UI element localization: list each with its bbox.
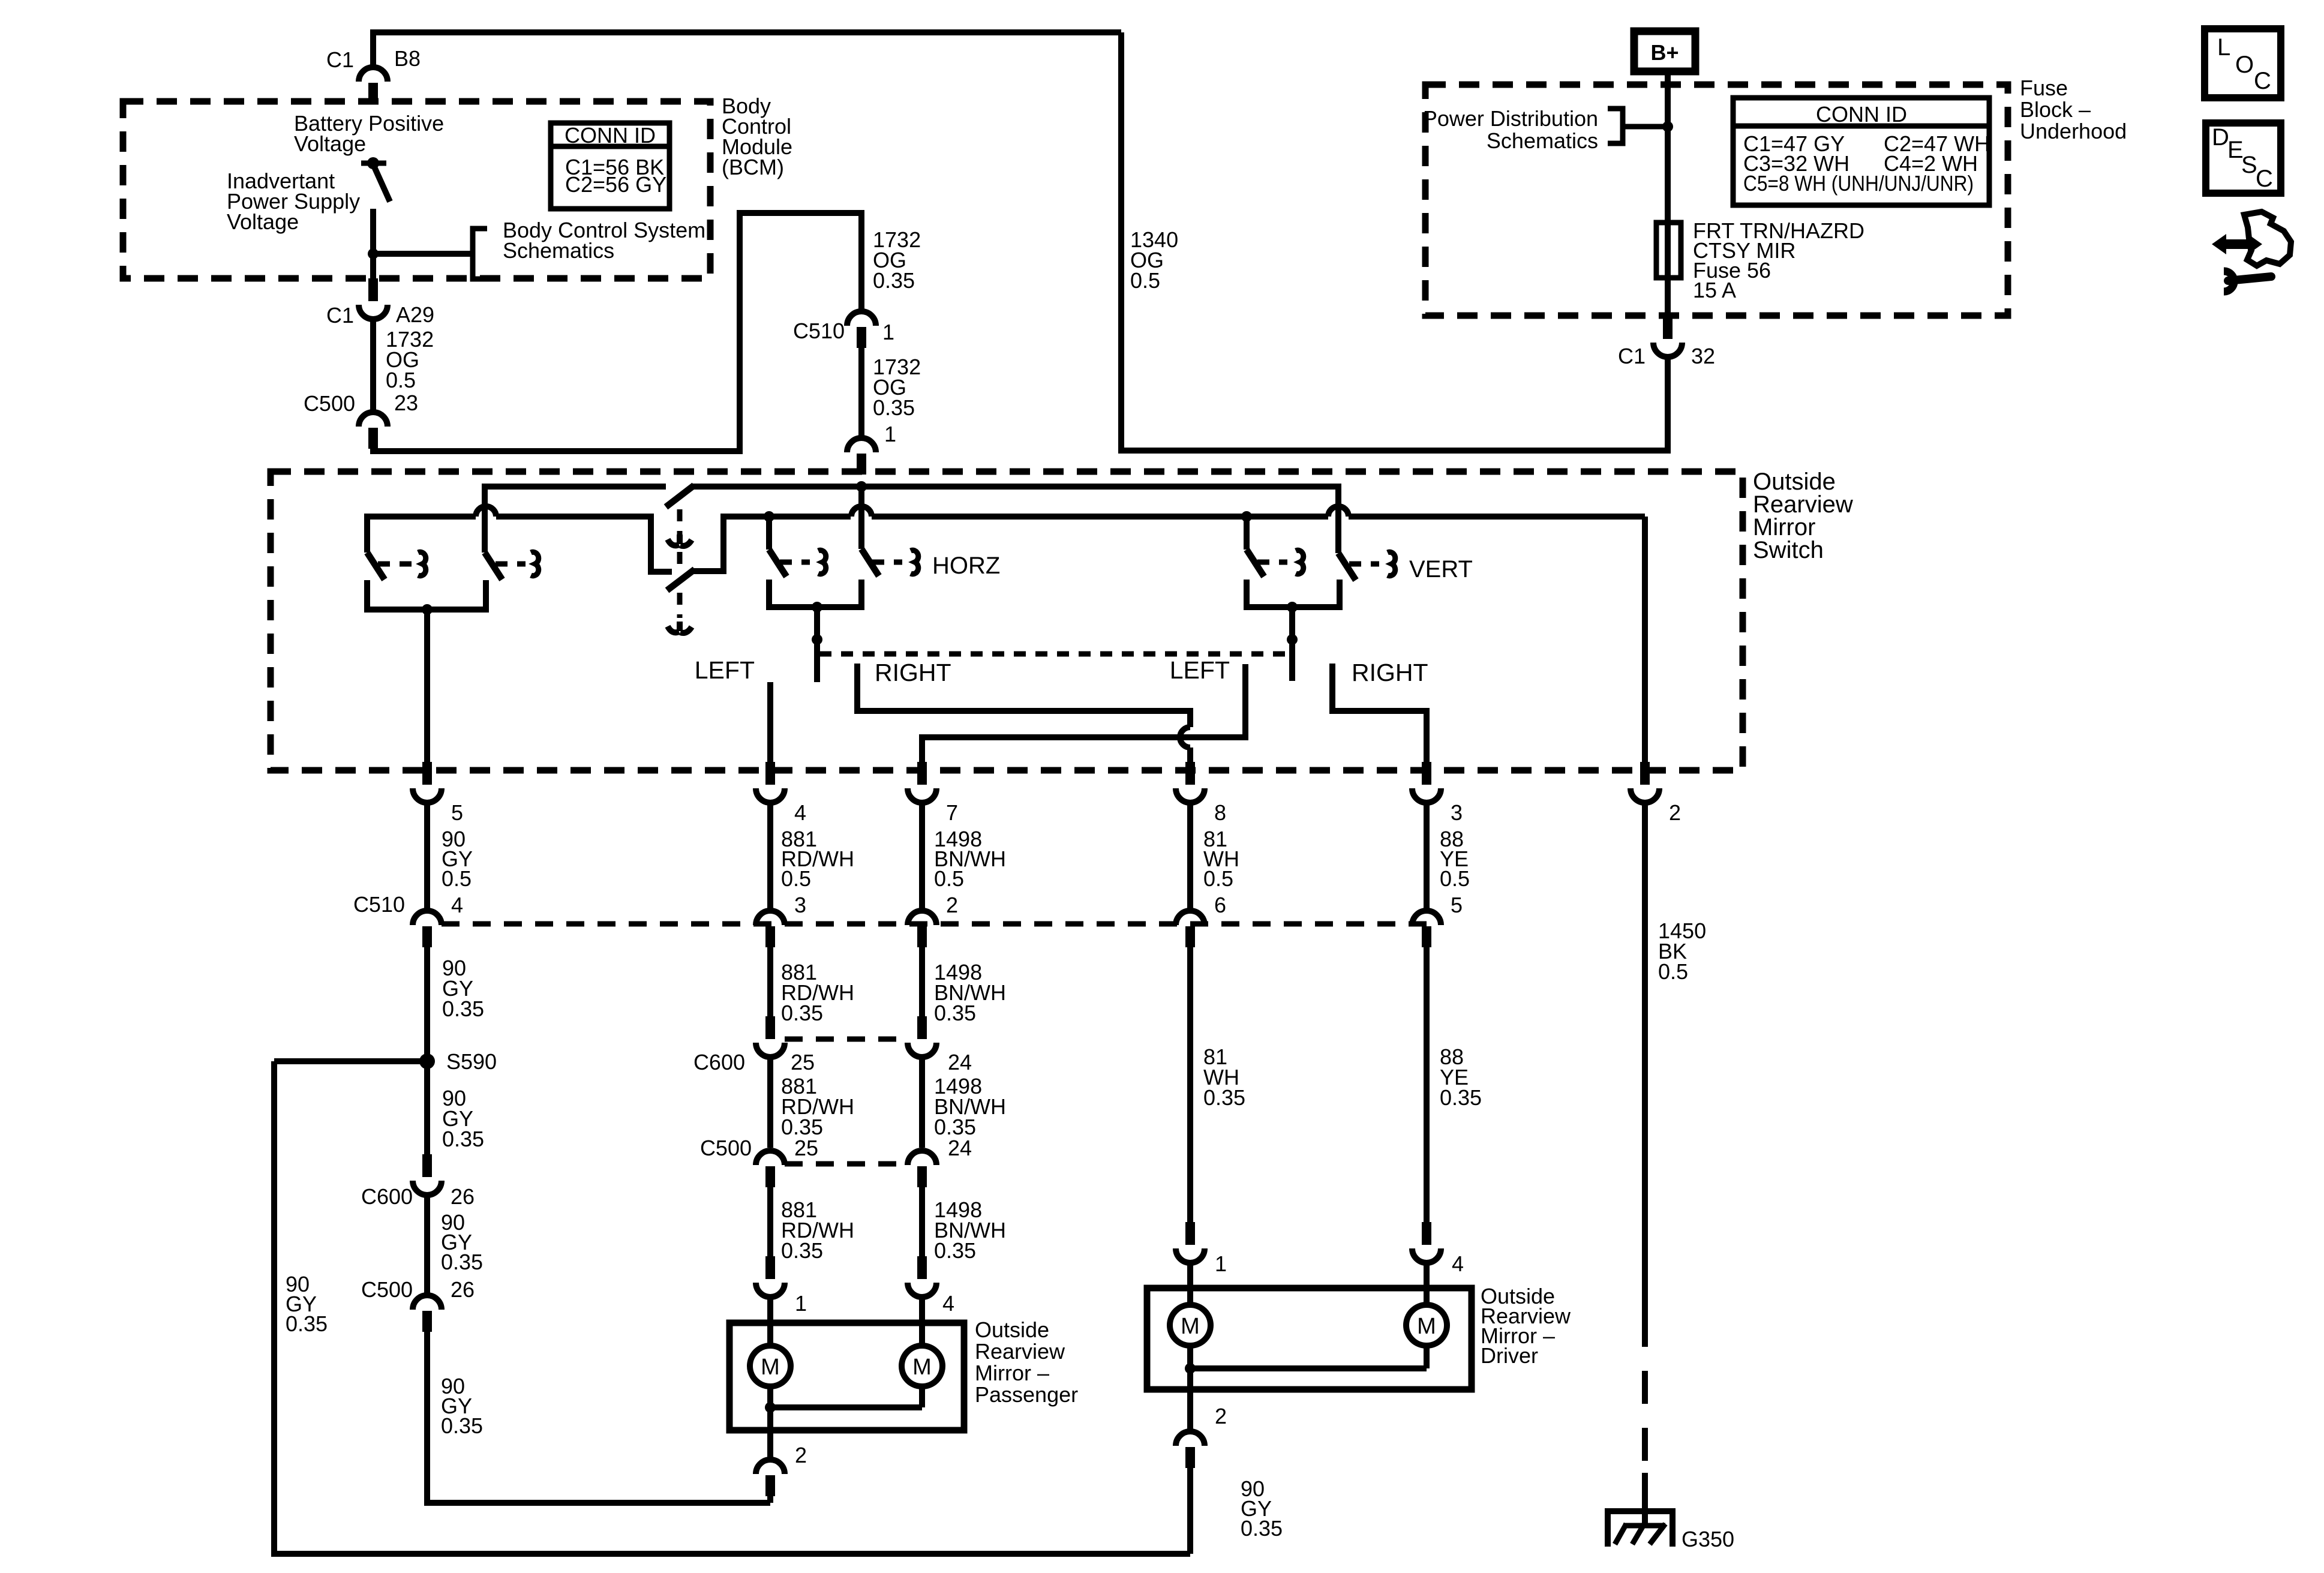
svg-text:HORZ: HORZ xyxy=(932,553,1000,579)
svg-text:25: 25 xyxy=(794,1136,818,1160)
wire: B+ down into fuse block xyxy=(1665,75,1671,225)
node: HORZ output lower junction xyxy=(812,634,822,645)
svg-text:26: 26 xyxy=(451,1184,475,1209)
svg-text:C500: C500 xyxy=(361,1277,413,1302)
connector C500 pin 25 xyxy=(756,1151,785,1165)
connector: mirror switch pin 2 xyxy=(1640,762,1650,785)
CONN ID table (fuse block) xyxy=(1733,98,1989,205)
linkage dashes (VERT right) xyxy=(1349,562,1379,567)
contact (pair A) xyxy=(418,552,426,576)
connector: mirror switch pin 4 xyxy=(765,762,775,785)
switch: HORZ-left stub xyxy=(766,517,772,550)
battery feed B+ terminal box xyxy=(1634,31,1695,71)
svg-text:RIGHT: RIGHT xyxy=(875,659,951,686)
wire 1732 OG 0.35 (C510 to switch) xyxy=(858,348,864,438)
switch lever (VERT left) xyxy=(1247,550,1264,577)
svg-text:C510: C510 xyxy=(353,892,405,917)
connector C510 pin 4 xyxy=(413,911,442,925)
svg-text:Switch: Switch xyxy=(1753,537,1824,563)
wire: branch to schematics bracket xyxy=(373,251,472,257)
svg-text:VERT: VERT xyxy=(1409,556,1473,583)
contact (HORZ left) xyxy=(818,550,826,574)
wire: HORZ LEFT to pin 4 xyxy=(767,682,773,762)
node: driver common junction xyxy=(1185,1363,1196,1374)
switch lever (HORZ right) xyxy=(861,549,879,576)
svg-text:C5=8 WH (UNH/UNJ/UNR): C5=8 WH (UNH/UNJ/UNR) xyxy=(1743,171,1974,196)
wire: VERT RIGHT bracket to pin 3 xyxy=(1332,664,1427,762)
connector C500 pin 23 xyxy=(359,412,388,427)
hop: bus2 over VERT-right stub xyxy=(1328,506,1349,517)
svg-text:3: 3 xyxy=(794,893,806,917)
bracket: left-pair common output xyxy=(367,580,486,610)
svg-text:0.35: 0.35 xyxy=(781,1001,823,1025)
svg-text:0.35: 0.35 xyxy=(441,1413,483,1438)
wire bus2 (right segment) xyxy=(723,514,1645,520)
node: VERT-left tap on bus2 xyxy=(1241,511,1252,522)
svg-text:4: 4 xyxy=(942,1291,954,1316)
svg-text:2: 2 xyxy=(946,893,958,917)
svg-text:C: C xyxy=(2254,68,2271,94)
wire 90 GY 0.35 (driver pin2 to splice run) xyxy=(1187,1468,1193,1554)
svg-text:1: 1 xyxy=(882,320,894,344)
splice S590 xyxy=(419,1053,435,1069)
switch: left-pair B stub from bus1 xyxy=(482,484,488,553)
svg-text:4: 4 xyxy=(451,893,463,917)
wire: HORZ output stub xyxy=(814,607,820,682)
hop: bus2 over select-switch stub xyxy=(367,514,651,520)
svg-text:23: 23 xyxy=(394,391,418,415)
switch lever (VERT right) xyxy=(1338,553,1356,580)
svg-text:C500: C500 xyxy=(304,391,355,416)
svg-text:25: 25 xyxy=(791,1050,815,1074)
node: VERT output junction xyxy=(1287,602,1298,613)
svg-text:5: 5 xyxy=(451,800,463,825)
svg-text:15 A: 15 A xyxy=(1693,278,1736,302)
svg-text:LEFT: LEFT xyxy=(695,656,755,684)
contact (pair B) xyxy=(531,552,539,576)
svg-text:B+: B+ xyxy=(1650,40,1679,65)
select switch linkage (dashed) middle xyxy=(677,552,683,568)
icon: double arrow xyxy=(2212,234,2262,254)
switch lever (HORZ left) xyxy=(769,550,786,577)
Outside Rearview Mirror - Driver box xyxy=(1147,1288,1472,1389)
wire: S590 branch to left riser xyxy=(274,1058,427,1064)
svg-text:Power Distribution: Power Distribution xyxy=(1423,106,1598,131)
switch lever (pair A) xyxy=(367,553,385,580)
svg-text:0.35: 0.35 xyxy=(441,1250,483,1274)
svg-text:0.35: 0.35 xyxy=(873,268,915,293)
Fuse Block - Underhood dashed box xyxy=(1425,85,2008,316)
svg-text:RIGHT: RIGHT xyxy=(1352,659,1428,686)
icon: wrench xyxy=(2228,277,2271,281)
wire 1498 BN/WH 0.35 (C510 to C600) xyxy=(919,947,925,1016)
wire: riser up to 1732 OG 0.35 branch xyxy=(740,213,861,454)
connector: driver mirror pin 1 xyxy=(1185,1222,1195,1245)
LOC reference box xyxy=(2205,29,2281,98)
svg-text:0.5: 0.5 xyxy=(386,368,416,392)
wire: fuse to C1 pin 32 xyxy=(1665,278,1671,317)
svg-text:M: M xyxy=(912,1355,932,1380)
Outside Rearview Mirror - Passenger box xyxy=(729,1323,964,1430)
wire: C500 23 down and across to riser xyxy=(373,449,740,451)
connector C510 pin 5 xyxy=(1412,911,1441,925)
connector: passenger mirror pin 1 xyxy=(765,1256,775,1279)
svg-text:A29: A29 xyxy=(396,302,434,327)
select switch lower lever xyxy=(667,569,695,590)
select switch linkage (dashed) upper xyxy=(677,509,683,535)
svg-text:0.35: 0.35 xyxy=(873,395,915,420)
wire: BCM internal below switch xyxy=(370,209,376,278)
wire 881 RD/WH 0.35 (C510 to C600) xyxy=(767,947,773,1016)
wire 1498 BN/WH 0.35 (C500 to passenger mirror) xyxy=(919,1187,925,1256)
connector C510 pin 1 xyxy=(847,311,876,326)
svg-text:0.5: 0.5 xyxy=(1658,959,1688,984)
DESC reference box xyxy=(2206,123,2281,193)
linkage dashes (pair B) xyxy=(496,562,526,567)
ground G350 symbol xyxy=(1608,1511,1673,1547)
motor M (passenger left/right) xyxy=(750,1346,791,1386)
svg-text:0.35: 0.35 xyxy=(934,1238,976,1263)
connector C1 pin 32 (fuse block output) xyxy=(1663,316,1673,339)
svg-text:3: 3 xyxy=(1451,800,1463,825)
connector: passenger mirror pin 4 xyxy=(917,1256,927,1279)
connector C600 pin 26 xyxy=(422,1154,432,1177)
svg-text:24: 24 xyxy=(948,1136,972,1160)
wire 1732 OG 0.35 (to C510 pin 1) xyxy=(858,210,864,311)
switch: inadvertent power switch inside BCM xyxy=(361,161,386,166)
connector: passenger mirror pin 2 xyxy=(756,1460,785,1474)
node: passenger common junction xyxy=(765,1402,776,1413)
motor M (driver left/right) xyxy=(1170,1305,1211,1346)
connector: mirror switch pin 5 xyxy=(422,762,432,785)
wires: motors to common xyxy=(767,1386,773,1430)
svg-text:C1: C1 xyxy=(326,47,354,72)
wire: HORZ RIGHT bracket to pin 8 xyxy=(857,664,1190,727)
svg-text:C600: C600 xyxy=(361,1184,413,1209)
motor M (passenger up/down) xyxy=(902,1346,942,1386)
linkage dashes (VERT left) xyxy=(1257,560,1287,565)
svg-text:Schematics: Schematics xyxy=(503,238,614,263)
connector: mirror switch pin 3 xyxy=(1422,762,1431,785)
node: HORZ-left tap on bus2 xyxy=(764,511,774,522)
svg-text:1: 1 xyxy=(884,422,896,446)
svg-text:4: 4 xyxy=(794,800,806,825)
node: left-pair output junction xyxy=(422,604,433,615)
wire 90 GY 0.35 (C600 to C500) xyxy=(424,1195,430,1294)
svg-text:0.5: 0.5 xyxy=(781,866,811,891)
svg-text:0.5: 0.5 xyxy=(934,866,964,891)
wire: vertical drop into C1 B8 connector xyxy=(370,29,376,67)
switch: HORZ-right stub (pin1 wire) xyxy=(858,487,864,549)
svg-text:0.35: 0.35 xyxy=(1241,1516,1283,1541)
icon: outline arrow xyxy=(2244,212,2291,266)
bracket: Power Distribution Schematics xyxy=(1608,109,1623,143)
switch: VERT-right stub from bus1 xyxy=(1335,484,1341,553)
select switch upper lever xyxy=(666,485,694,507)
svg-text:24: 24 xyxy=(948,1050,972,1074)
connector C600 pin 24 xyxy=(917,1016,927,1039)
fuse FRT TRN/HAZRD CTSY MIR Fuse 56 15A xyxy=(1656,223,1681,278)
svg-text:0.35: 0.35 xyxy=(781,1238,823,1263)
select switch linkage (dashed) lower xyxy=(677,593,683,618)
svg-text:B8: B8 xyxy=(394,46,421,71)
wires into driver mirror xyxy=(1187,1263,1193,1305)
wire 881 RD/WH 0.35 (C600 to C500) xyxy=(767,1057,773,1148)
svg-text:0.35: 0.35 xyxy=(442,1127,484,1151)
svg-text:C600: C600 xyxy=(693,1050,745,1074)
linkage dashes (HORZ left) xyxy=(780,560,810,565)
dashed connector row C600 xyxy=(785,1037,907,1042)
svg-text:Driver: Driver xyxy=(1481,1343,1538,1368)
hop: bus2 over HORZ-right stub xyxy=(851,506,872,517)
svg-text:D: D xyxy=(2212,124,2229,151)
svg-text:G350: G350 xyxy=(1682,1527,1734,1551)
motor M (driver up/down) xyxy=(1406,1305,1447,1346)
connector C1 B8 (BCM) xyxy=(359,67,388,82)
connector C600 pin 25 xyxy=(765,1016,775,1039)
wire: bracket to B+ wire xyxy=(1623,124,1668,130)
switch lever (pair B) xyxy=(485,553,502,580)
wire 88 YE 0.35 (C510 to driver mirror) xyxy=(1424,947,1430,1222)
wire 90 GY 0.35 (S590 to C600) xyxy=(424,1061,430,1154)
svg-text:0.5: 0.5 xyxy=(1440,866,1470,891)
wire 1498 BN/WH 0.35 (C600 to C500) xyxy=(919,1057,925,1148)
svg-text:(BCM): (BCM) xyxy=(722,155,784,179)
svg-text:6: 6 xyxy=(1214,893,1226,917)
wire: left riser down xyxy=(271,1061,277,1554)
wire 90 GY 0.35 (C510 to S590) xyxy=(424,947,430,1061)
connector C500 pin 24 xyxy=(908,1151,936,1165)
switch: VERT-left stub xyxy=(1244,517,1250,550)
svg-text:C1: C1 xyxy=(1618,344,1646,368)
wire: top horizontal feed from fuse block to BCM B8 xyxy=(370,29,1121,35)
svg-text:7: 7 xyxy=(946,800,958,825)
detent symbol upper xyxy=(668,535,692,546)
wire 90 GY 0.35 (C500-26 down to passenger pin2 link) xyxy=(427,1332,770,1503)
connector: mirror switch pin 7 xyxy=(917,762,927,785)
svg-text:0.35: 0.35 xyxy=(442,996,484,1021)
wire: passenger motor link xyxy=(770,1404,922,1410)
svg-text:2: 2 xyxy=(1215,1404,1227,1428)
svg-text:C2=56 GY: C2=56 GY xyxy=(565,172,666,197)
contact (HORZ right) xyxy=(911,550,918,574)
svg-text:O: O xyxy=(2235,52,2254,78)
svg-text:Voltage: Voltage xyxy=(227,209,299,234)
wire segments pins to C510 row xyxy=(424,803,430,911)
node: VERT output lower junction xyxy=(1287,634,1298,645)
wire bus1 (right segment to VERT) xyxy=(693,484,1338,490)
svg-text:2: 2 xyxy=(795,1443,807,1467)
Outside Rearview Mirror Switch dashed box xyxy=(271,472,1743,770)
svg-text:2: 2 xyxy=(1669,800,1681,825)
svg-text:L: L xyxy=(2217,34,2230,61)
connector C510 pin 2 xyxy=(908,911,936,925)
svg-text:5: 5 xyxy=(1451,893,1463,917)
connector C500 pin 26 xyxy=(413,1295,442,1310)
svg-text:Outside: Outside xyxy=(975,1317,1049,1342)
svg-text:S: S xyxy=(2241,152,2257,178)
hop: pin8 wire over pin7 cross wire xyxy=(1180,727,1190,748)
wires into passenger mirror xyxy=(767,1297,773,1346)
svg-text:0.35: 0.35 xyxy=(1440,1085,1482,1110)
connector: driver mirror pin 4 xyxy=(1422,1222,1431,1245)
svg-text:0.35: 0.35 xyxy=(1203,1085,1245,1110)
bracket: Body Control System Schematics xyxy=(473,229,487,279)
svg-text:LEFT: LEFT xyxy=(1170,656,1230,684)
svg-text:Mirror –: Mirror – xyxy=(975,1361,1049,1385)
wire: bottom return run xyxy=(271,1551,1190,1557)
Body Control Module (BCM) dashed box xyxy=(123,101,710,278)
svg-text:C: C xyxy=(2256,166,2273,192)
wire 1340 OG 0.5 (fuse to BCM feed) xyxy=(1121,32,1668,451)
connector C510 pin 3 xyxy=(756,911,785,925)
svg-text:0.35: 0.35 xyxy=(934,1001,976,1025)
svg-text:0.5: 0.5 xyxy=(1203,866,1233,891)
wire: VERT output stub xyxy=(1289,607,1295,681)
svg-text:Rearview: Rearview xyxy=(975,1339,1065,1364)
svg-text:CONN ID: CONN ID xyxy=(1816,102,1907,127)
connector C1 A29 (BCM output) xyxy=(368,278,378,301)
switch: left-pair A stub xyxy=(364,514,370,553)
connector: mirror switch pin 8 xyxy=(1185,762,1195,785)
wire 1732 OG 0.5 (A29 to C500) xyxy=(370,319,376,412)
svg-text:C510: C510 xyxy=(793,319,845,343)
wire 881 RD/WH 0.35 (C500 to passenger mirror) xyxy=(767,1187,773,1256)
node: pin1 junction on bus1 xyxy=(856,481,867,492)
svg-text:0.5: 0.5 xyxy=(1130,268,1160,293)
contact (VERT left) xyxy=(1296,550,1304,574)
svg-text:Voltage: Voltage xyxy=(294,131,366,156)
svg-text:S590: S590 xyxy=(446,1049,497,1074)
svg-text:Block –: Block – xyxy=(2020,97,2091,122)
node: junction to Body Control System Schematics xyxy=(368,248,379,259)
wire 81 WH 0.35 (C510 to driver mirror) xyxy=(1187,947,1193,1222)
svg-text:Underhood: Underhood xyxy=(2020,119,2127,143)
detent symbol lower xyxy=(668,622,692,633)
select switch lower output xyxy=(693,514,723,571)
wire 1450 BK 0.5 upper segment xyxy=(1642,803,1648,1314)
svg-text:Fuse: Fuse xyxy=(2020,76,2068,100)
linkage dashes (HORZ right) xyxy=(872,560,902,565)
dashed connector row C500 xyxy=(785,1161,907,1167)
svg-text:C1: C1 xyxy=(326,303,354,328)
connector C510 pin 6 xyxy=(1176,911,1205,925)
svg-text:8: 8 xyxy=(1214,800,1226,825)
wire: VERT LEFT to pin 7 xyxy=(922,664,1245,762)
wires: driver motors to common xyxy=(1187,1346,1193,1431)
connector: mirror switch pin 1 xyxy=(847,438,876,452)
linkage dashes (pair A) xyxy=(378,562,413,567)
svg-text:0.5: 0.5 xyxy=(442,866,472,891)
wire: bus2 to pin 2 (ground return) xyxy=(1642,517,1648,762)
svg-text:0.35: 0.35 xyxy=(286,1311,328,1336)
connector: driver mirror pin 2 xyxy=(1176,1431,1205,1446)
svg-text:26: 26 xyxy=(451,1277,475,1302)
svg-text:M: M xyxy=(761,1355,780,1380)
svg-text:Schematics: Schematics xyxy=(1487,128,1598,153)
svg-text:1: 1 xyxy=(795,1291,807,1316)
wire bus1 (pin1 feed rail, left segment) xyxy=(485,484,666,490)
svg-text:M: M xyxy=(1181,1314,1200,1339)
svg-text:32: 32 xyxy=(1691,344,1715,368)
node: HORZ output junction xyxy=(812,602,822,613)
bracket: HORZ output xyxy=(769,580,861,607)
bracket: VERT output xyxy=(1247,580,1340,607)
svg-text:C500: C500 xyxy=(700,1136,752,1160)
wire: passenger pin 2 stub xyxy=(767,1430,773,1460)
svg-text:1: 1 xyxy=(1215,1251,1227,1276)
svg-text:4: 4 xyxy=(1452,1251,1464,1276)
svg-text:CONN ID: CONN ID xyxy=(565,123,656,148)
dashed interconnect between HORZ and VERT outputs xyxy=(819,652,1292,657)
svg-text:Passenger: Passenger xyxy=(975,1382,1078,1407)
dashed connector row C510 xyxy=(442,921,1427,927)
wire 1450 BK dashed section to ground xyxy=(1642,1314,1648,1473)
CONN ID table (BCM) xyxy=(551,123,669,209)
wire: left-pair output to pin 5 xyxy=(424,610,430,762)
svg-text:M: M xyxy=(1417,1314,1436,1339)
node: junction on B+ feed xyxy=(1662,121,1673,132)
wire: driver motor link xyxy=(1190,1365,1427,1371)
contact (VERT right) xyxy=(1388,552,1395,576)
select switch lower-left bracket xyxy=(651,514,672,572)
